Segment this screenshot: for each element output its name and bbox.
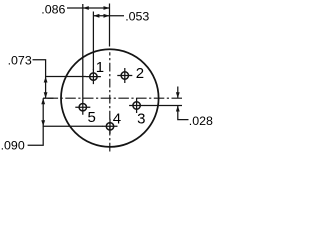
hole 4 xyxy=(103,119,118,134)
.053 right arrow xyxy=(104,14,110,18)
.086 left arrow xyxy=(83,6,89,10)
svg-text:3: 3 xyxy=(137,111,145,128)
svg-text:4: 4 xyxy=(113,111,121,128)
extension line hole1 top xyxy=(92,12,94,71)
extension line hole5 top xyxy=(82,4,84,100)
vertical centerline xyxy=(109,52,111,151)
.086 right arrow xyxy=(104,6,110,10)
hole 5 xyxy=(75,100,90,115)
.028 up arrow xyxy=(176,106,180,112)
extension line hole3 right xyxy=(144,105,182,107)
svg-text:.090: .090 xyxy=(1,139,25,153)
svg-text:5: 5 xyxy=(88,109,96,126)
.053 left arrow xyxy=(93,14,99,18)
horizontal centerline solid left stub xyxy=(43,97,53,99)
svg-text:.028: .028 xyxy=(189,114,213,128)
svg-text:2: 2 xyxy=(136,65,144,82)
dim .090 line + leader xyxy=(28,98,44,145)
dim .028 lower + leader xyxy=(178,106,189,120)
connector body circle xyxy=(61,49,159,147)
extension line hole4/center top xyxy=(109,4,111,47)
hole 2 xyxy=(117,68,132,83)
dimension texts xyxy=(1,3,213,153)
arrowheads xyxy=(41,6,179,126)
hole 3 xyxy=(129,98,144,113)
.073 top arrow xyxy=(44,77,48,83)
pin number labels xyxy=(88,59,146,128)
extension line hole4 left xyxy=(43,125,103,127)
svg-text:.053: .053 xyxy=(125,10,149,24)
svg-text:.086: .086 xyxy=(41,3,65,17)
hole 1 xyxy=(86,69,101,84)
dim line .086 xyxy=(67,7,110,9)
dim line .053 + leader xyxy=(93,15,124,17)
.090 top arrow xyxy=(41,98,45,104)
.073 bottom arrow xyxy=(44,92,48,98)
extension line hole1 left xyxy=(45,76,86,78)
svg-text:1: 1 xyxy=(96,59,104,76)
.090 bottom arrow xyxy=(41,120,45,126)
horizontal centerline xyxy=(43,97,182,99)
dim .073 leader elbow xyxy=(33,60,46,99)
.028 down arrow xyxy=(176,92,180,98)
svg-text:.073: .073 xyxy=(8,53,32,67)
dim .028 upper stub xyxy=(177,87,179,99)
